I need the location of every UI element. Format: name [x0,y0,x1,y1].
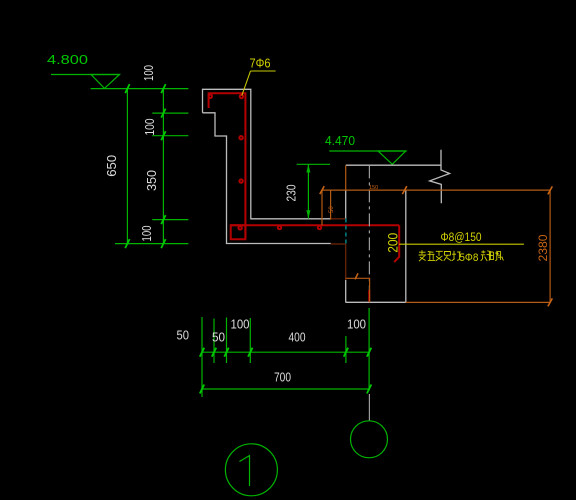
rebar dot 5 [238,226,241,229]
bottom chain ext x226.5 [226,318,228,364]
rebar dot 4 [239,179,242,182]
orange ext beam face [345,165,347,190]
svg-text:7Φ6: 7Φ6 [250,56,271,71]
svg-text:2380: 2380 [536,234,550,261]
svg-text:400: 400 [289,330,306,345]
bottom chain ext x250.3 [249,318,251,363]
bottom chain ext x214 [213,319,215,364]
level 4.470 triangle [378,151,406,164]
roof slab top [346,164,441,166]
bottom dim line 1 [202,351,369,353]
dim 230 vertical with arrows [307,164,309,218]
rebar dot 6 [278,226,281,229]
numeral 1 [240,456,250,487]
svg-text:150: 150 [369,185,378,191]
axis dash line [368,165,370,302]
beam bottom [346,301,406,303]
orange ext x322 [321,190,323,225]
svg-text:100: 100 [141,65,156,81]
parapet outline [203,89,331,243]
svg-text:50: 50 [212,330,225,345]
svg-text:100: 100 [142,119,157,136]
beam left face [345,190,347,219]
svg-text:4.470: 4.470 [325,133,355,148]
svg-text:50: 50 [177,328,190,343]
svg-text:5Φ8: 5Φ8 [459,252,478,264]
rebar dot 7 [318,226,321,229]
level 4.800 triangle [91,75,120,89]
svg-text:4.800: 4.800 [47,52,88,67]
label underline [251,70,276,72]
svg-text:Φ8@150: Φ8@150 [441,232,482,244]
chain bottom line y243.6 [115,243,188,245]
break line [430,150,450,204]
dim 230 tick line [297,163,330,165]
svg-text:350: 350 [144,170,159,191]
bottom chain ext x369.1 [368,308,370,391]
svg-text:50: 50 [329,206,335,213]
dim red gutter edge [331,218,346,220]
tick marks left chain [125,84,165,248]
level 4.470 line [329,150,406,152]
orange ext x330.6 [330,190,332,220]
orange dim vertical 2380 [549,190,551,302]
axis connector [368,394,370,421]
detail bubble 1 [225,444,277,496]
rebar dot 1 [209,95,212,98]
orange dim line 2380 top [322,189,550,191]
dim red beam face overlay [345,244,347,280]
bottom chain ext x345.9 [345,336,347,363]
orange ticks [320,186,553,306]
level 4.800 upper line [51,74,120,76]
orange bottom line [406,301,550,303]
svg-text:230: 230 [284,185,299,202]
beam left face lower [345,280,347,302]
bent bar end [394,225,399,262]
svg-text:650: 650 [104,155,119,177]
chain tick line y113 [152,112,188,114]
orange dim 100 under beam [346,278,370,302]
leader line [242,71,251,96]
bottom chain ext x202 [201,317,203,397]
svg-text:100: 100 [347,317,366,332]
gutter floor rebar [231,224,400,226]
parapet rebar top bar [209,93,246,238]
rebar dot 2 [240,95,243,98]
beam right face [405,190,407,302]
red axis segment [368,290,370,302]
axis bubble [351,421,388,458]
svg-text:100: 100 [231,317,250,332]
bottom ticks [200,348,371,394]
rebar dot 3 [239,136,242,139]
dimension chain vertical [162,89,164,244]
svg-text:700: 700 [274,370,291,385]
dim red bottom edge [331,243,346,245]
svg-text:100: 100 [139,226,154,242]
cyan hidden line [345,219,347,244]
rebar anchor box [231,225,246,239]
dimension line 650 vertical [126,89,128,244]
chain tick line y219.6 [152,219,188,221]
rebar label leader [399,243,524,245]
note text chinese [419,250,461,261]
level line 4.800 [91,88,189,90]
bottom dim line 2 [202,388,369,390]
svg-text:200: 200 [384,233,400,253]
chain tick line y135.7 [152,135,188,137]
